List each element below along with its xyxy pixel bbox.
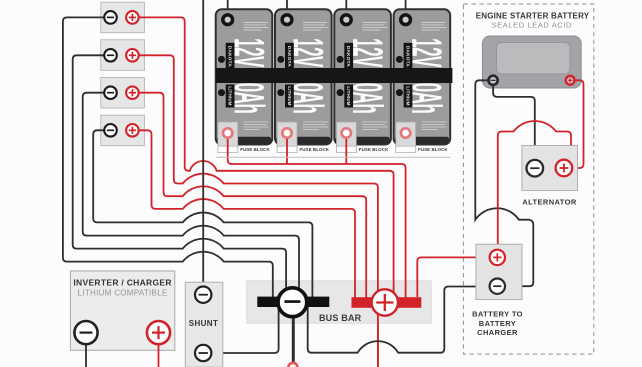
svg-text:LITHIUM COMPATIBLE: LITHIUM COMPATIBLE (78, 289, 168, 298)
svg-text:DAKOTA: DAKOTA (287, 46, 292, 67)
svg-text:BATTERY TO: BATTERY TO (472, 309, 523, 318)
svg-text:LITHIUM: LITHIUM (287, 86, 292, 105)
svg-text:DAKOTA: DAKOTA (228, 46, 233, 67)
svg-text:DAKOTA: DAKOTA (406, 46, 411, 67)
svg-text:FUSE BLOCK: FUSE BLOCK (359, 147, 389, 152)
svg-text:LITHIUM: LITHIUM (228, 86, 233, 105)
svg-text:FUSE BLOCK: FUSE BLOCK (418, 147, 448, 152)
svg-text:SHUNT: SHUNT (189, 319, 219, 328)
svg-text:SEALED LEAD ACID: SEALED LEAD ACID (492, 21, 572, 30)
svg-text:FUSE BLOCK: FUSE BLOCK (300, 147, 330, 152)
svg-text:FUSE BLOCK: FUSE BLOCK (240, 147, 270, 152)
svg-text:DAKOTA: DAKOTA (346, 46, 351, 67)
svg-text:ENGINE STARTER BATTERY: ENGINE STARTER BATTERY (476, 11, 590, 20)
svg-text:LITHIUM: LITHIUM (406, 86, 411, 105)
svg-text:CHARGER: CHARGER (477, 328, 518, 337)
svg-text:INVERTER / CHARGER: INVERTER / CHARGER (73, 278, 171, 288)
svg-text:BUS BAR: BUS BAR (319, 313, 362, 323)
svg-text:LITHIUM: LITHIUM (346, 86, 351, 105)
svg-text:ALTERNATOR: ALTERNATOR (522, 197, 577, 206)
svg-text:BATTERY: BATTERY (479, 319, 516, 328)
